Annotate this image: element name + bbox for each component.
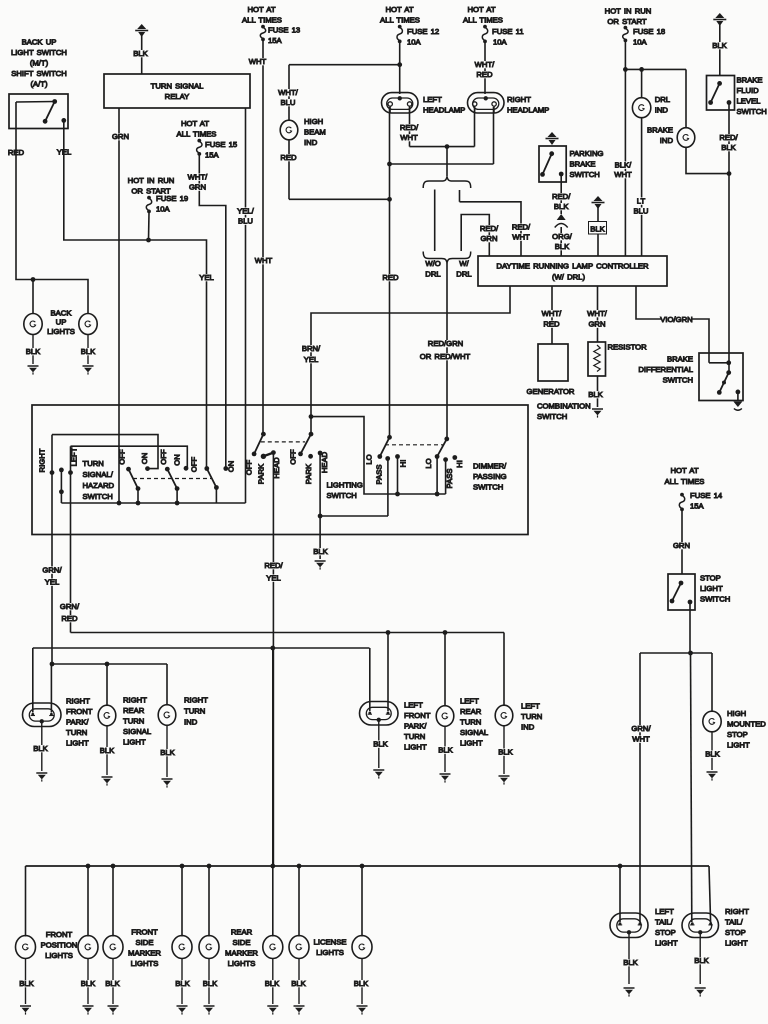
svg-text:LIGHT: LIGHT <box>404 743 427 752</box>
svg-text:SWITCH: SWITCH <box>83 492 113 501</box>
svg-text:SWITCH: SWITCH <box>700 595 730 604</box>
svg-text:LIGHTS: LIGHTS <box>131 959 159 968</box>
svg-text:SIDE: SIDE <box>233 938 251 947</box>
svg-text:LIGHTS: LIGHTS <box>45 951 73 960</box>
svg-text:DIFFERENTIAL: DIFFERENTIAL <box>638 365 693 374</box>
svg-text:GENERATOR: GENERATOR <box>527 387 575 396</box>
svg-text:DRL: DRL <box>425 270 441 279</box>
svg-text:HIGH: HIGH <box>727 709 746 718</box>
svg-text:HI: HI <box>455 460 464 468</box>
svg-text:HOT AT: HOT AT <box>181 119 209 128</box>
svg-text:PARKING: PARKING <box>570 149 604 158</box>
svg-text:RED/: RED/ <box>512 223 531 232</box>
svg-text:LIGHT: LIGHT <box>655 939 678 948</box>
svg-text:(A/T): (A/T) <box>30 80 48 89</box>
svg-text:LIGHTS: LIGHTS <box>228 959 256 968</box>
svg-text:MOUNTED: MOUNTED <box>727 720 766 729</box>
svg-text:HOT AT: HOT AT <box>467 5 495 14</box>
svg-text:LT: LT <box>637 197 646 206</box>
svg-text:COMBINATION: COMBINATION <box>537 402 591 411</box>
svg-text:ORG/: ORG/ <box>552 232 573 241</box>
svg-text:10A: 10A <box>493 38 508 47</box>
svg-text:BACK UP: BACK UP <box>22 38 57 47</box>
svg-text:RIGHT: RIGHT <box>507 95 531 104</box>
svg-text:TAIL/: TAIL/ <box>655 918 674 927</box>
svg-text:10A: 10A <box>156 205 171 214</box>
svg-text:REAR: REAR <box>123 706 145 715</box>
svg-text:15A: 15A <box>205 151 220 160</box>
svg-text:HEAD: HEAD <box>272 457 281 479</box>
svg-text:BRAKE: BRAKE <box>737 76 763 85</box>
svg-text:PASSING: PASSING <box>473 472 507 481</box>
svg-text:SWITCH: SWITCH <box>327 491 357 500</box>
svg-text:BLK: BLK <box>588 390 603 399</box>
svg-text:ON: ON <box>140 453 149 465</box>
svg-text:HI: HI <box>398 460 407 468</box>
svg-text:YEL: YEL <box>304 355 319 364</box>
svg-text:MARKER: MARKER <box>128 949 161 958</box>
svg-text:SWITCH: SWITCH <box>537 412 567 421</box>
svg-text:PARK/: PARK/ <box>66 718 89 727</box>
svg-text:HEADLAMP: HEADLAMP <box>423 106 465 115</box>
svg-text:LEFT: LEFT <box>655 907 674 916</box>
svg-text:FUSE 11: FUSE 11 <box>492 27 524 36</box>
svg-text:WHT: WHT <box>249 57 267 66</box>
svg-text:BLU: BLU <box>281 98 296 107</box>
svg-text:FLUID: FLUID <box>737 86 760 95</box>
svg-text:WHT: WHT <box>400 133 418 142</box>
svg-text:BLK: BLK <box>554 202 569 211</box>
svg-text:LIGHT: LIGHT <box>725 939 748 948</box>
svg-text:BLK: BLK <box>133 49 148 58</box>
svg-text:RIGHT: RIGHT <box>38 448 47 472</box>
svg-text:BLK: BLK <box>373 740 388 749</box>
svg-text:SWITCH: SWITCH <box>663 376 693 385</box>
svg-text:RED: RED <box>476 70 493 79</box>
svg-text:RED/: RED/ <box>719 133 738 142</box>
svg-text:OR RED/WHT: OR RED/WHT <box>420 352 471 361</box>
svg-text:RESISTOR: RESISTOR <box>608 343 648 352</box>
svg-text:WHT/: WHT/ <box>188 173 209 182</box>
svg-text:15A: 15A <box>268 36 283 45</box>
svg-text:DAYTIME RUNNING LAMP CONTROLLE: DAYTIME RUNNING LAMP CONTROLLER <box>496 262 649 271</box>
svg-text:BLK: BLK <box>623 958 638 967</box>
svg-text:TURN SIGNAL: TURN SIGNAL <box>151 82 204 91</box>
svg-text:OFF: OFF <box>118 449 127 465</box>
svg-text:BLK: BLK <box>712 41 727 50</box>
svg-text:ON: ON <box>227 461 236 473</box>
svg-text:BLK: BLK <box>291 979 306 988</box>
svg-text:BLK: BLK <box>33 744 48 753</box>
svg-text:FUSE 13: FUSE 13 <box>268 26 300 35</box>
svg-text:LIGHT: LIGHT <box>727 741 750 750</box>
svg-text:PASS: PASS <box>445 469 454 489</box>
svg-text:BLK: BLK <box>26 347 41 356</box>
svg-text:HOT IN RUN: HOT IN RUN <box>128 176 175 185</box>
svg-text:GRN/: GRN/ <box>60 602 80 611</box>
svg-text:ALL TIMES: ALL TIMES <box>242 16 282 25</box>
svg-text:BLK/: BLK/ <box>615 161 633 170</box>
svg-text:LEFT: LEFT <box>70 447 79 466</box>
svg-text:RIGHT: RIGHT <box>725 907 749 916</box>
svg-text:UP: UP <box>56 318 67 327</box>
svg-text:SWITCH: SWITCH <box>737 107 767 116</box>
svg-text:OFF: OFF <box>190 457 199 473</box>
svg-text:GRN: GRN <box>588 320 605 329</box>
svg-text:BLK: BLK <box>354 979 369 988</box>
svg-text:DRL: DRL <box>456 270 472 279</box>
svg-text:DIMMER/: DIMMER/ <box>473 462 507 471</box>
svg-text:HEADLAMP: HEADLAMP <box>507 106 549 115</box>
svg-text:HOT AT: HOT AT <box>670 466 698 475</box>
svg-text:RED: RED <box>382 273 399 282</box>
svg-text:WHT/: WHT/ <box>475 60 496 69</box>
svg-text:FRONT: FRONT <box>66 707 93 716</box>
svg-text:ALL TIMES: ALL TIMES <box>665 477 705 486</box>
svg-text:BRAKE: BRAKE <box>667 355 693 364</box>
svg-text:STOP: STOP <box>700 574 721 583</box>
svg-text:LIGHT: LIGHT <box>700 584 723 593</box>
svg-text:BACK: BACK <box>51 309 73 318</box>
svg-text:SIGNAL/: SIGNAL/ <box>83 470 114 479</box>
svg-text:GRN: GRN <box>480 234 497 243</box>
svg-text:TURN: TURN <box>83 459 104 468</box>
svg-text:IND: IND <box>304 138 318 147</box>
svg-text:RIGHT: RIGHT <box>66 697 90 706</box>
svg-text:FUSE 12: FUSE 12 <box>407 27 439 36</box>
svg-text:RED/: RED/ <box>480 224 499 233</box>
svg-text:PARK: PARK <box>256 463 265 484</box>
svg-text:RED/: RED/ <box>552 192 571 201</box>
svg-text:LIGHTS: LIGHTS <box>47 327 75 336</box>
svg-text:SIDE: SIDE <box>136 938 154 947</box>
svg-text:WHT: WHT <box>512 233 530 242</box>
svg-text:PARK: PARK <box>304 463 313 484</box>
svg-text:SWITCH: SWITCH <box>570 170 600 179</box>
svg-text:STOP: STOP <box>655 928 676 937</box>
svg-text:FRONT: FRONT <box>131 928 158 937</box>
svg-text:IND: IND <box>521 723 535 732</box>
svg-text:FUSE 18: FUSE 18 <box>633 27 665 36</box>
svg-text:LIGHT: LIGHT <box>123 738 146 747</box>
svg-text:SWITCH: SWITCH <box>473 483 503 492</box>
svg-text:LEFT: LEFT <box>521 702 540 711</box>
svg-text:RELAY: RELAY <box>165 92 190 101</box>
svg-text:LIGHTS: LIGHTS <box>316 948 344 957</box>
svg-text:RED: RED <box>280 153 297 162</box>
svg-text:HAZARD: HAZARD <box>83 481 115 490</box>
svg-text:RED: RED <box>543 320 560 329</box>
svg-text:BLK: BLK <box>721 143 736 152</box>
svg-text:10A: 10A <box>633 38 648 47</box>
svg-text:TURN: TURN <box>66 728 87 737</box>
svg-text:10A: 10A <box>407 38 422 47</box>
svg-text:BLK: BLK <box>100 746 115 755</box>
svg-text:LEVEL: LEVEL <box>737 97 762 106</box>
svg-text:STOP: STOP <box>725 928 746 937</box>
svg-text:TURN: TURN <box>460 718 481 727</box>
svg-text:HOT AT: HOT AT <box>247 5 275 14</box>
svg-text:HOT AT: HOT AT <box>385 5 413 14</box>
svg-text:FUSE 15: FUSE 15 <box>205 140 237 149</box>
svg-text:(W/ DRL): (W/ DRL) <box>552 273 585 282</box>
svg-text:IND: IND <box>660 136 674 145</box>
svg-text:TAIL/: TAIL/ <box>725 918 744 927</box>
svg-text:LO: LO <box>365 454 374 464</box>
svg-text:RED/GRN: RED/GRN <box>428 339 463 348</box>
svg-text:IND: IND <box>184 718 198 727</box>
svg-text:OR START: OR START <box>607 17 646 26</box>
svg-text:RIGHT: RIGHT <box>184 696 208 705</box>
svg-text:W/: W/ <box>459 259 469 268</box>
svg-text:GRN: GRN <box>189 183 206 192</box>
svg-text:BEAM: BEAM <box>304 128 326 137</box>
svg-text:REAR: REAR <box>460 707 482 716</box>
svg-text:GRN: GRN <box>112 132 129 141</box>
svg-text:BLK: BLK <box>694 956 709 965</box>
svg-text:RED/: RED/ <box>400 123 419 132</box>
svg-text:BLU: BLU <box>238 217 253 226</box>
svg-text:ALL TIMES: ALL TIMES <box>177 130 217 139</box>
svg-text:LIGHT: LIGHT <box>66 739 89 748</box>
svg-text:GRN: GRN <box>673 541 690 550</box>
svg-text:BLK: BLK <box>313 547 328 556</box>
svg-text:OFF: OFF <box>288 449 297 465</box>
svg-text:BLK: BLK <box>81 347 96 356</box>
svg-text:YEL: YEL <box>45 578 60 587</box>
svg-text:BLU: BLU <box>634 207 649 216</box>
svg-text:LIGHT SWITCH: LIGHT SWITCH <box>11 48 67 57</box>
svg-text:BLK: BLK <box>705 750 720 759</box>
svg-text:LICENSE: LICENSE <box>314 938 347 947</box>
svg-text:YEL: YEL <box>266 574 281 583</box>
svg-text:SHIFT SWITCH: SHIFT SWITCH <box>11 69 67 78</box>
svg-text:BLK: BLK <box>19 979 34 988</box>
svg-text:TURN: TURN <box>404 732 425 741</box>
svg-text:REAR: REAR <box>231 928 253 937</box>
svg-text:IND: IND <box>655 106 669 115</box>
svg-text:FRONT: FRONT <box>404 711 431 720</box>
svg-text:BLK: BLK <box>590 225 605 234</box>
svg-text:OFF: OFF <box>159 449 168 465</box>
svg-text:BLK: BLK <box>555 242 570 251</box>
svg-text:FRONT: FRONT <box>46 930 73 939</box>
svg-text:BLK: BLK <box>438 746 453 755</box>
svg-text:BRAKE: BRAKE <box>647 126 673 135</box>
svg-text:ON: ON <box>172 454 181 466</box>
svg-text:HOT IN RUN: HOT IN RUN <box>605 7 652 16</box>
svg-text:BLK: BLK <box>175 979 190 988</box>
svg-text:WHT/: WHT/ <box>587 309 608 318</box>
svg-text:BRAKE: BRAKE <box>570 160 596 169</box>
svg-text:SIGNAL: SIGNAL <box>123 727 152 736</box>
svg-text:BLK: BLK <box>265 979 280 988</box>
svg-text:FUSE 19: FUSE 19 <box>156 194 188 203</box>
svg-text:BLK: BLK <box>203 979 218 988</box>
svg-text:BLK: BLK <box>81 979 96 988</box>
svg-text:MARKER: MARKER <box>225 949 258 958</box>
svg-text:WHT: WHT <box>632 735 650 744</box>
svg-text:TURN: TURN <box>123 717 144 726</box>
svg-text:BRN/: BRN/ <box>302 344 321 353</box>
svg-text:TURN: TURN <box>184 707 205 716</box>
svg-text:LEFT: LEFT <box>404 701 423 710</box>
svg-text:ALL TIMES: ALL TIMES <box>463 16 503 25</box>
svg-text:RIGHT: RIGHT <box>123 696 147 705</box>
svg-text:BLK: BLK <box>160 748 175 757</box>
svg-text:FUSE 14: FUSE 14 <box>690 491 723 500</box>
svg-text:TURN: TURN <box>521 712 542 721</box>
svg-text:SIGNAL: SIGNAL <box>460 728 489 737</box>
svg-text:W/O: W/O <box>425 259 440 268</box>
svg-text:POSITION: POSITION <box>41 941 78 950</box>
svg-text:WHT: WHT <box>614 170 632 179</box>
svg-text:WHT/: WHT/ <box>278 88 299 97</box>
svg-text:PARK/: PARK/ <box>404 722 427 731</box>
svg-text:15A: 15A <box>690 502 705 511</box>
svg-text:HIGH: HIGH <box>304 117 323 126</box>
svg-text:RED/: RED/ <box>264 561 283 570</box>
svg-text:GRN/: GRN/ <box>631 724 651 733</box>
svg-text:BLK: BLK <box>498 748 513 757</box>
svg-text:LEFT: LEFT <box>423 95 442 104</box>
svg-text:YEL: YEL <box>199 273 214 282</box>
svg-text:WHT/: WHT/ <box>542 309 563 318</box>
svg-text:(M/T): (M/T) <box>30 59 49 68</box>
svg-text:WHT: WHT <box>255 256 273 265</box>
svg-text:DRL: DRL <box>655 95 671 104</box>
svg-text:LIGHT: LIGHT <box>460 739 483 748</box>
svg-text:HEAD: HEAD <box>320 451 329 473</box>
svg-text:YEL/: YEL/ <box>237 207 255 216</box>
svg-text:LEFT: LEFT <box>460 697 479 706</box>
svg-text:BLK: BLK <box>105 979 120 988</box>
svg-text:GRN/: GRN/ <box>42 566 62 575</box>
svg-text:ALL TIMES: ALL TIMES <box>380 16 420 25</box>
svg-text:STOP: STOP <box>727 730 748 739</box>
svg-text:PASS: PASS <box>375 465 384 485</box>
svg-text:OFF: OFF <box>245 460 254 476</box>
svg-text:RED: RED <box>61 614 78 623</box>
svg-text:VIO/GRN: VIO/GRN <box>660 315 692 324</box>
svg-text:LIGHTING: LIGHTING <box>327 481 363 490</box>
svg-text:LO: LO <box>424 458 433 468</box>
